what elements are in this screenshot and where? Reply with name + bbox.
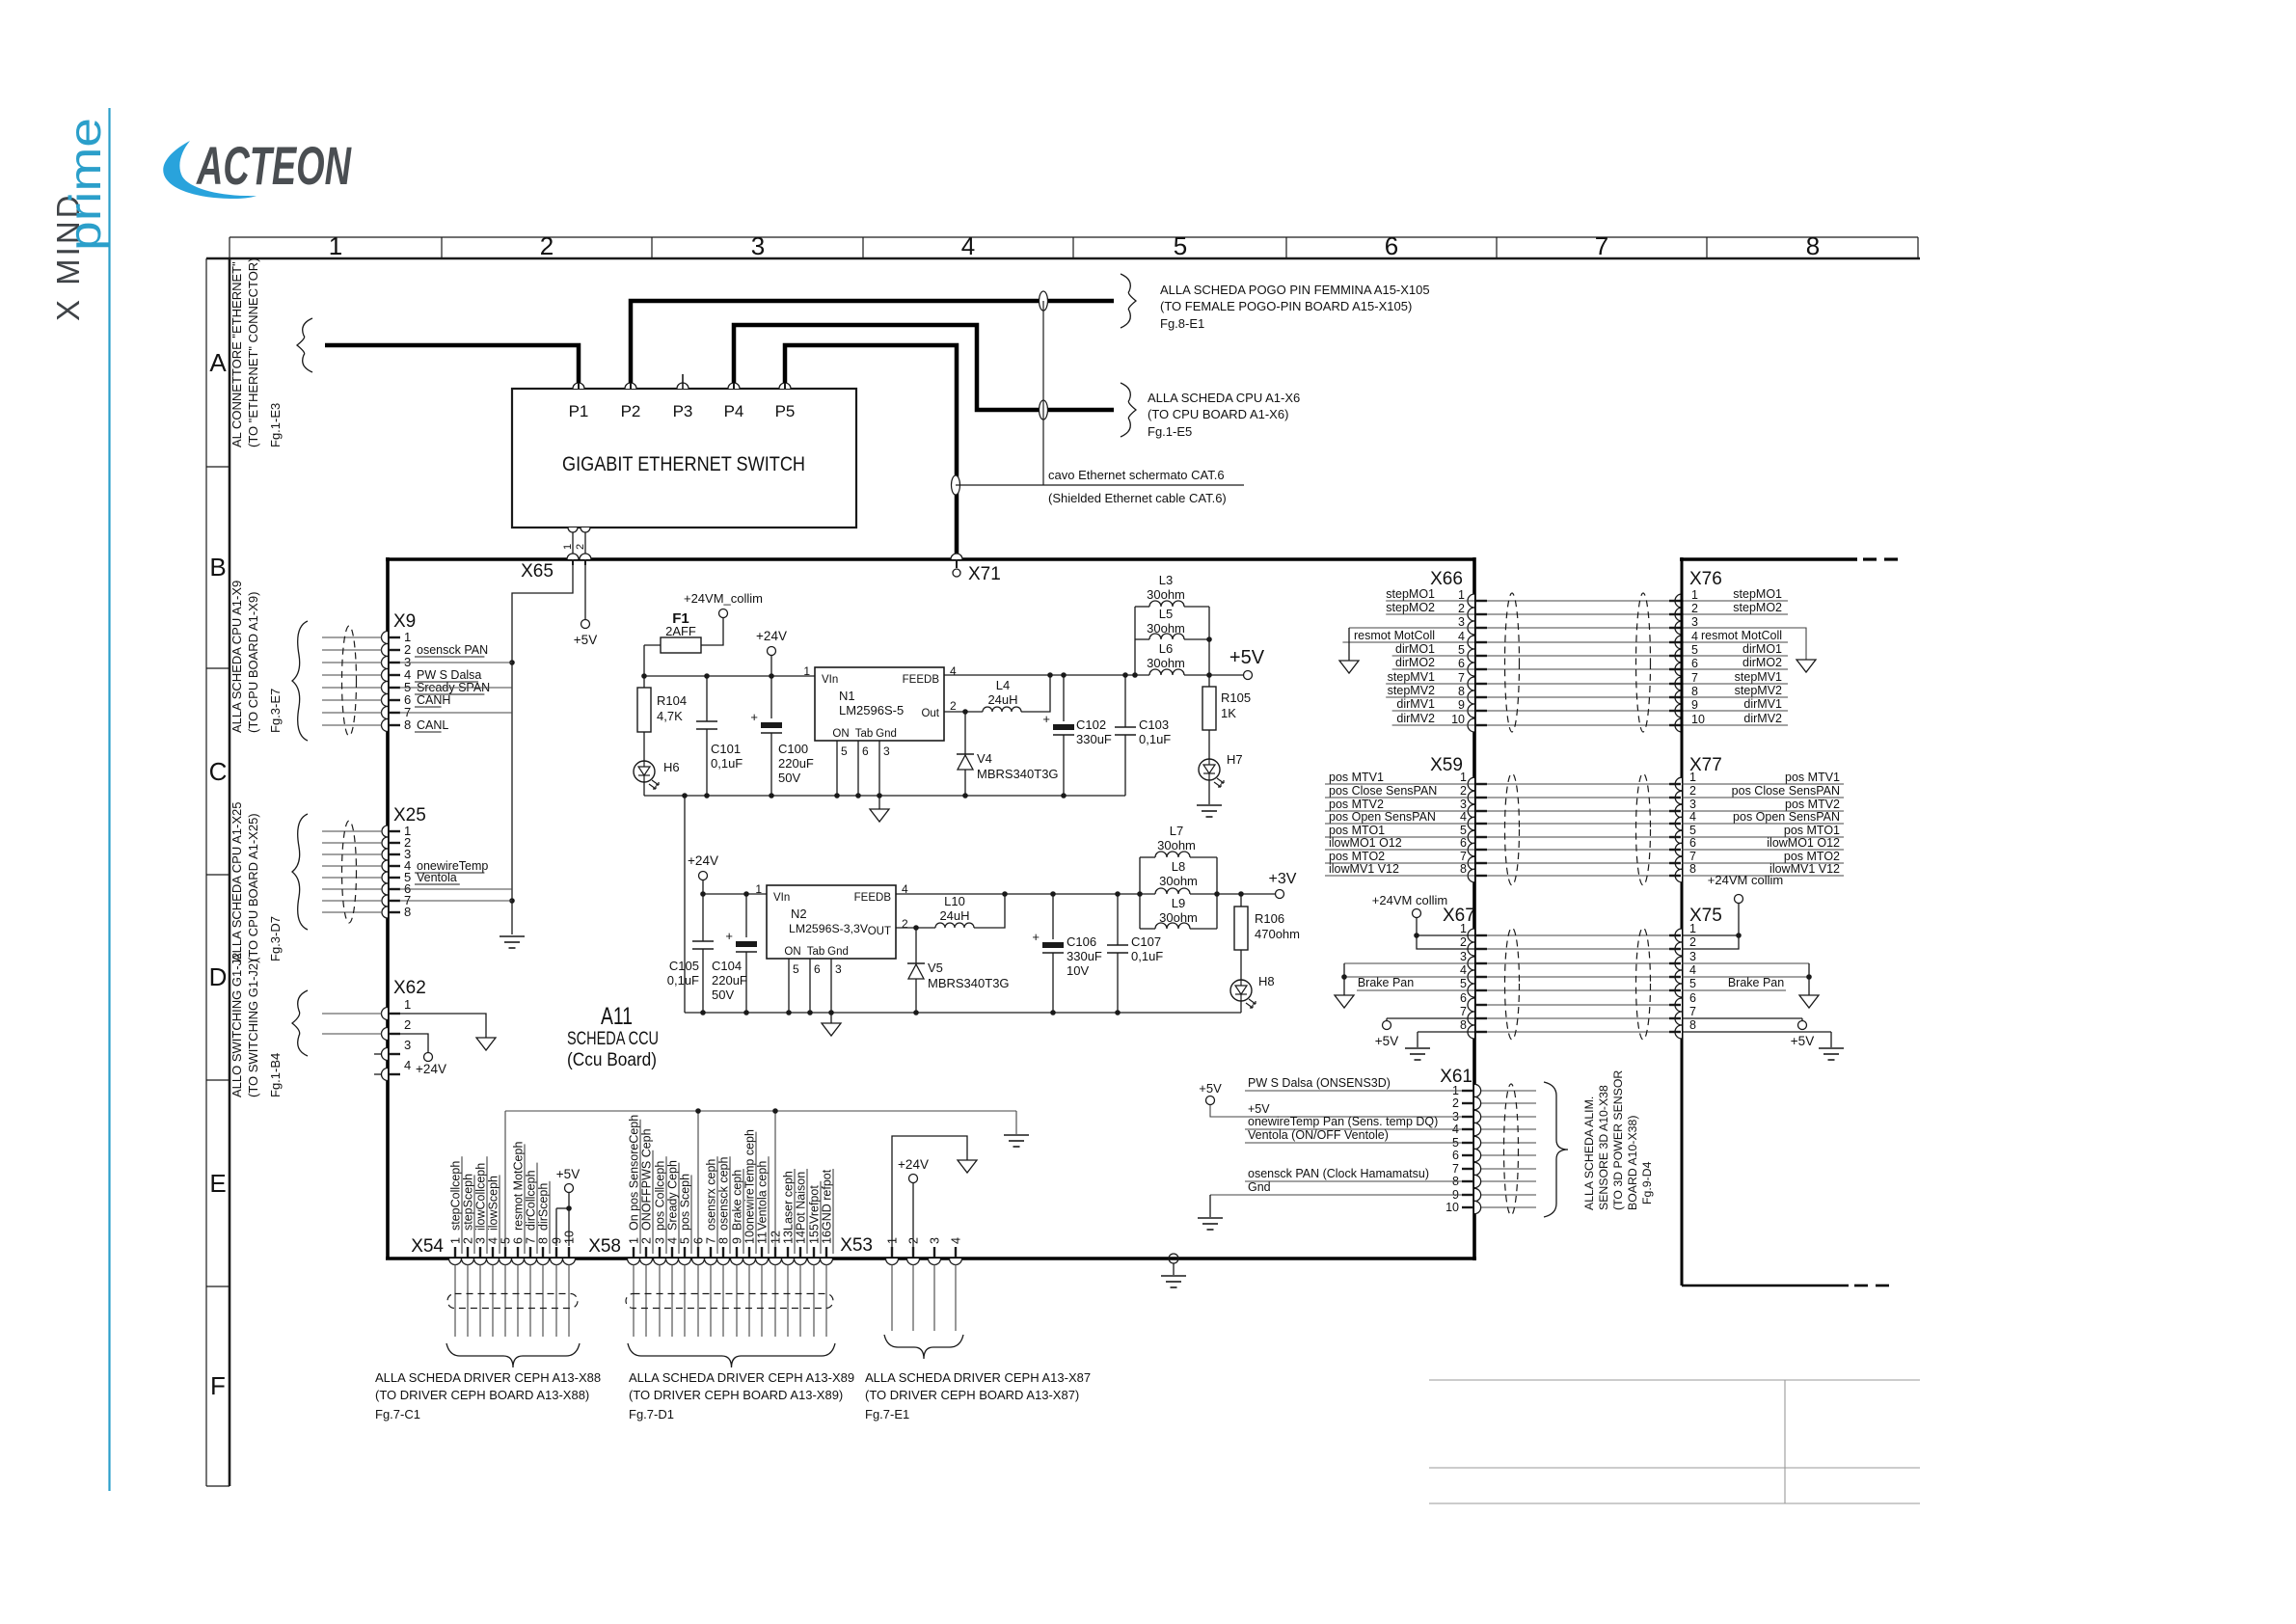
- svg-text:Fg.7-E1: Fg.7-E1: [865, 1407, 909, 1421]
- svg-text:Fg.7-C1: Fg.7-C1: [375, 1407, 420, 1421]
- svg-text:3: 3: [474, 1237, 488, 1244]
- svg-text:Out: Out: [921, 708, 939, 719]
- svg-text:Gnd: Gnd: [1248, 1180, 1271, 1194]
- svg-text:7: 7: [1452, 1162, 1459, 1176]
- svg-text:6: 6: [814, 962, 821, 976]
- X54 +5V terminal: [568, 1193, 570, 1246]
- net line to X54 X58 pins: [505, 1110, 1016, 1112]
- board shield connection: [1169, 1254, 1178, 1263]
- svg-text:pos Sceph: pos Sceph: [679, 1174, 692, 1231]
- svg-text:L7: L7: [1170, 824, 1183, 838]
- svg-text:3: 3: [1689, 798, 1696, 811]
- svg-text:stepCollceph: stepCollceph: [449, 1161, 463, 1231]
- frame header band: [230, 236, 1918, 238]
- X54 cable shield: [447, 1294, 578, 1309]
- svg-text:Fg.3-D7: Fg.3-D7: [268, 916, 283, 961]
- break symbol X25 cable: [292, 814, 308, 930]
- capacitor C100 220uF 50V: [770, 676, 772, 718]
- svg-text:3: 3: [883, 744, 890, 758]
- svg-text:3: 3: [1691, 615, 1698, 629]
- svg-text:Brake Pan: Brake Pan: [1358, 976, 1414, 989]
- svg-text:X76: X76: [1689, 569, 1722, 589]
- X76 cable shield: [1636, 593, 1651, 732]
- svg-text:4: 4: [666, 1237, 680, 1244]
- svg-text:L10: L10: [944, 894, 965, 908]
- X61 pin9 Gnd: [1210, 1194, 1462, 1196]
- svg-text:330uF: 330uF: [1076, 732, 1112, 746]
- svg-text:Fg.1-B4: Fg.1-B4: [268, 1053, 283, 1097]
- svg-text:ALLA SCHEDA DRIVER CEPH A13-X8: ALLA SCHEDA DRIVER CEPH A13-X88: [375, 1370, 601, 1385]
- svg-text:4: 4: [404, 1058, 411, 1072]
- svg-text:GIGABIT ETHERNET SWITCH: GIGABIT ETHERNET SWITCH: [562, 453, 805, 475]
- X25 internal wires: [399, 888, 512, 890]
- title block: [1429, 1379, 1920, 1381]
- X59 to X77 wires: [1487, 783, 1669, 785]
- svg-text:ilowMO1 O12: ilowMO1 O12: [1329, 836, 1402, 850]
- svg-text:1: 1: [1689, 771, 1696, 784]
- svg-text:dirMO2: dirMO2: [1395, 656, 1435, 669]
- connector X71: [951, 554, 962, 559]
- svg-text:C102: C102: [1076, 717, 1106, 732]
- svg-text:1: 1: [1460, 922, 1467, 935]
- X61 external wires: [1481, 1090, 1536, 1092]
- svg-text:8: 8: [1689, 1018, 1696, 1032]
- N2 out line: [896, 927, 916, 929]
- svg-text:On pos SensoreCeph: On pos SensoreCeph: [628, 1115, 641, 1231]
- svg-text:13: 13: [782, 1231, 796, 1244]
- svg-text:30ohm: 30ohm: [1147, 621, 1185, 636]
- svg-text:2AFF: 2AFF: [665, 624, 696, 638]
- svg-text:4: 4: [1691, 630, 1698, 643]
- svg-text:SENSORE 3D A10-X38: SENSORE 3D A10-X38: [1597, 1085, 1610, 1210]
- svg-text:8: 8: [404, 717, 411, 732]
- port P4: [728, 383, 740, 389]
- N1 feedback line +5V: [944, 674, 1149, 676]
- svg-text:2: 2: [575, 544, 586, 550]
- N2 pins 5 6 3: [788, 959, 790, 1013]
- svg-text:11: 11: [756, 1232, 770, 1244]
- svg-text:+24VM_collim: +24VM_collim: [684, 591, 763, 606]
- inductor L4 24uH: [965, 711, 983, 713]
- X75 cable shield: [1636, 928, 1651, 1040]
- svg-text:P5: P5: [775, 402, 796, 420]
- svg-text:2: 2: [1460, 935, 1467, 949]
- svg-text:Fg.8-E1: Fg.8-E1: [1160, 316, 1204, 331]
- wire X65 pin1 to gnd net: [512, 565, 573, 934]
- svg-text:+5V: +5V: [1791, 1034, 1814, 1048]
- ground X66 pin3: [1339, 661, 1359, 673]
- ground link N1 to N2 rail: [684, 796, 686, 1013]
- svg-text:4: 4: [950, 664, 957, 678]
- shield drain wire vertical: [1042, 301, 1044, 485]
- X54 external wires: [454, 1264, 456, 1337]
- connector X67: [1468, 929, 1474, 942]
- svg-text:CANH: CANH: [417, 693, 450, 707]
- inductor L10 24uH: [916, 927, 935, 929]
- X62 external wires: [322, 1013, 382, 1015]
- wire X62 pin1 to ground: [399, 1014, 486, 1038]
- connector X9: [382, 632, 388, 644]
- svg-text:ALLA SCHEDA POGO PIN FEMMINA A: ALLA SCHEDA POGO PIN FEMMINA A15-X105: [1160, 283, 1430, 297]
- break symbol X9 cable: [292, 621, 308, 741]
- svg-text:+: +: [725, 929, 733, 943]
- svg-text:stepMO2: stepMO2: [1386, 601, 1435, 614]
- svg-text:10: 10: [1451, 713, 1465, 726]
- svg-text:ilowMV1 V12: ilowMV1 V12: [1329, 862, 1399, 876]
- svg-text:H7: H7: [1227, 752, 1243, 767]
- regulator N1 LM2596S-5: [815, 667, 944, 741]
- svg-text:0,1uF: 0,1uF: [711, 756, 743, 771]
- svg-text:3: 3: [1460, 798, 1467, 811]
- svg-text:stepMO2: stepMO2: [1733, 601, 1782, 614]
- wire X76 pin3 to ground: [1682, 628, 1806, 660]
- svg-text:X62: X62: [393, 978, 426, 998]
- brace X58 cable: [628, 1343, 835, 1367]
- svg-text:220uF: 220uF: [712, 973, 747, 988]
- svg-text:2: 2: [462, 1237, 475, 1244]
- X9 internal wires to gnd net: [399, 662, 512, 663]
- connector X58: [628, 1259, 640, 1265]
- svg-text:X9: X9: [393, 611, 416, 632]
- svg-text:1: 1: [1689, 922, 1696, 935]
- svg-text:24uH: 24uH: [987, 692, 1017, 707]
- svg-text:(Ccu Board): (Ccu Board): [567, 1049, 657, 1070]
- wire X75 pin1: [1682, 934, 1739, 936]
- svg-text:50V: 50V: [712, 988, 734, 1002]
- connector X54: [449, 1259, 462, 1265]
- svg-text:resmot MotColl: resmot MotColl: [1701, 629, 1782, 642]
- svg-text:X59: X59: [1430, 755, 1463, 775]
- capacitor C107 0,1uF: [1117, 894, 1119, 945]
- ground X61 pin9: [1198, 1217, 1223, 1219]
- svg-text:8: 8: [1806, 231, 1820, 260]
- svg-text:VIn: VIn: [822, 674, 838, 686]
- svg-text:50V: 50V: [778, 771, 800, 785]
- svg-text:30ohm: 30ohm: [1159, 910, 1198, 925]
- connector X59: [1468, 777, 1474, 791]
- svg-text:+5V: +5V: [556, 1167, 580, 1181]
- svg-text:4: 4: [487, 1237, 500, 1244]
- svg-text:pos MTV2: pos MTV2: [1785, 798, 1840, 811]
- svg-text:330uF: 330uF: [1067, 949, 1102, 963]
- svg-text:3: 3: [654, 1237, 667, 1244]
- svg-text:ALLA SCHEDA CPU A1-X25: ALLA SCHEDA CPU A1-X25: [230, 802, 244, 961]
- svg-text:ALLA SCHEDA ALIM.: ALLA SCHEDA ALIM.: [1582, 1096, 1596, 1210]
- svg-text:6: 6: [512, 1237, 526, 1244]
- svg-text:C101: C101: [711, 742, 741, 756]
- N1 pins 5 6 3: [836, 741, 838, 796]
- wire +3V output: [1190, 893, 1275, 895]
- svg-text:MBRS340T3G: MBRS340T3G: [928, 976, 1010, 990]
- svg-text:8: 8: [537, 1237, 551, 1244]
- svg-text:Brake Pan: Brake Pan: [1728, 976, 1784, 989]
- svg-text:7: 7: [1458, 671, 1465, 685]
- svg-text:15: 15: [808, 1231, 822, 1244]
- X67 to X75 wires: [1487, 934, 1669, 936]
- diode V5 MBRS340T3G: [915, 928, 917, 963]
- svg-text:(TO DRIVER CEPH BOARD A13-X88): (TO DRIVER CEPH BOARD A13-X88): [375, 1388, 589, 1402]
- svg-text:6: 6: [1458, 657, 1465, 670]
- svg-text:A: A: [209, 348, 227, 377]
- svg-text:6: 6: [1689, 991, 1696, 1005]
- svg-text:X58: X58: [588, 1236, 621, 1257]
- svg-text:stepMV2: stepMV2: [1388, 684, 1435, 697]
- svg-text:ALLA SCHEDA DRIVER CEPH A13-X8: ALLA SCHEDA DRIVER CEPH A13-X87: [865, 1370, 1091, 1385]
- X67 pin8 ground: [1418, 1031, 1474, 1033]
- svg-text:+5V: +5V: [574, 633, 597, 647]
- break symbol CPU board: [1121, 383, 1136, 437]
- svg-text:1: 1: [628, 1237, 641, 1244]
- svg-text:1: 1: [755, 882, 762, 896]
- svg-text:Sready Ceph: Sready Ceph: [666, 1160, 680, 1231]
- svg-text:F: F: [210, 1371, 226, 1400]
- svg-text:X71: X71: [968, 564, 1001, 584]
- svg-text:resmot MotCeph: resmot MotCeph: [512, 1142, 526, 1231]
- svg-text:220uF: 220uF: [778, 756, 814, 771]
- svg-text:30ohm: 30ohm: [1147, 656, 1185, 670]
- svg-text:6: 6: [1689, 836, 1696, 850]
- svg-text:7: 7: [1689, 1005, 1696, 1018]
- svg-text:ACTEON: ACTEON: [196, 135, 352, 196]
- ground X75: [1799, 995, 1819, 1008]
- svg-text:10V: 10V: [1067, 963, 1089, 978]
- X67 cable shield: [1505, 928, 1520, 1040]
- wire fuse to vin bus: [643, 645, 645, 676]
- X75 pin7 +5V terminal: [1682, 1017, 1802, 1019]
- svg-text:3: 3: [1689, 950, 1696, 963]
- svg-text:ALLA SCHEDA CPU A1-X6: ALLA SCHEDA CPU A1-X6: [1148, 391, 1300, 405]
- svg-text:2: 2: [1689, 935, 1696, 949]
- inductor bank L7 L8 L9 30ohm: [1137, 891, 1143, 897]
- svg-text:(TO CPU BOARD A1-X6): (TO CPU BOARD A1-X6): [1148, 407, 1288, 421]
- svg-text:pos Close SensPAN: pos Close SensPAN: [1732, 784, 1840, 798]
- svg-text:N2: N2: [791, 907, 807, 921]
- wire X66 pin3 to ground: [1349, 627, 1474, 629]
- svg-text:8: 8: [1689, 862, 1696, 876]
- svg-text:(TO CPU BOARD A1-X9): (TO CPU BOARD A1-X9): [246, 592, 260, 733]
- terminal +24V N1: [768, 647, 776, 656]
- svg-text:+5V: +5V: [1248, 1102, 1270, 1116]
- svg-text:(TO DRIVER CEPH BOARD A13-X89): (TO DRIVER CEPH BOARD A13-X89): [629, 1388, 843, 1402]
- svg-text:+: +: [1042, 712, 1050, 726]
- svg-text:A11: A11: [601, 1003, 633, 1030]
- svg-text:(TO "ETHERNET" CONNECTOR): (TO "ETHERNET" CONNECTOR): [246, 257, 260, 447]
- wire P5 to X71: [785, 345, 957, 555]
- svg-text:3: 3: [835, 962, 842, 976]
- svg-text:X53: X53: [840, 1235, 873, 1256]
- svg-text:(TO SWITCHING G1-J2): (TO SWITCHING G1-J2): [246, 960, 260, 1097]
- X59 cable shield: [1505, 773, 1520, 885]
- svg-text:dirMO2: dirMO2: [1742, 656, 1782, 669]
- connector X62: [382, 1008, 388, 1020]
- svg-text:pos MTO1: pos MTO1: [1329, 824, 1385, 837]
- svg-text:P2: P2: [621, 402, 641, 420]
- wire P4 to CPU board: [734, 325, 1114, 410]
- terminal +24V X62: [424, 1053, 433, 1062]
- regulator N2 LM2596S-3,3V: [767, 885, 896, 959]
- wire X67 pin1: [1417, 934, 1474, 936]
- svg-text:5: 5: [1460, 824, 1467, 837]
- wire P2 to pogo pin board: [631, 301, 1114, 383]
- svg-text:2: 2: [404, 1017, 411, 1032]
- svg-text:C103: C103: [1139, 717, 1169, 732]
- svg-text:C100: C100: [778, 742, 808, 756]
- svg-text:4: 4: [950, 1237, 963, 1244]
- svg-text:dirMV2: dirMV2: [1396, 712, 1435, 725]
- svg-text:C: C: [209, 757, 228, 786]
- connector X53: [886, 1259, 899, 1265]
- svg-text:cavo Ethernet schermato CAT.6: cavo Ethernet schermato CAT.6: [1048, 468, 1225, 482]
- svg-text:10: 10: [1691, 713, 1705, 726]
- svg-text:1: 1: [803, 664, 810, 678]
- svg-text:6: 6: [1385, 231, 1398, 260]
- X58 external wires: [633, 1264, 635, 1337]
- svg-text:R106: R106: [1255, 911, 1284, 926]
- svg-text:LM2596S-3,3V: LM2596S-3,3V: [789, 922, 869, 935]
- capacitor C105 0,1uF: [702, 894, 704, 941]
- svg-text:2: 2: [1691, 602, 1698, 615]
- svg-text:+5V: +5V: [1375, 1034, 1398, 1048]
- gigabit ethernet switch box: [512, 389, 856, 528]
- svg-text:(TO CPU BOARD A1-X25): (TO CPU BOARD A1-X25): [246, 813, 260, 961]
- ground X76 pin3: [1796, 660, 1816, 672]
- svg-text:7: 7: [1595, 231, 1608, 260]
- svg-text:30ohm: 30ohm: [1159, 874, 1198, 888]
- svg-text:1: 1: [449, 1237, 463, 1244]
- svg-text:stepSceph: stepSceph: [462, 1174, 475, 1231]
- svg-text:H6: H6: [663, 760, 680, 774]
- svg-text:4,7K: 4,7K: [657, 709, 683, 723]
- svg-text:OUT: OUT: [868, 926, 891, 937]
- svg-text:9: 9: [731, 1237, 744, 1244]
- capacitor C101 0,1uF: [706, 676, 708, 721]
- svg-text:AL CONNETTORE "ETHERNET": AL CONNETTORE "ETHERNET": [230, 261, 244, 447]
- svg-text:2: 2: [540, 231, 554, 260]
- break symbol X62 cable: [292, 990, 308, 1056]
- svg-text:8: 8: [717, 1237, 731, 1244]
- svg-text:0,1uF: 0,1uF: [667, 973, 699, 988]
- wire +24VM_collim to fuse: [701, 618, 723, 645]
- svg-text:5: 5: [1460, 977, 1467, 990]
- capacitor C102 330uF: [1063, 675, 1065, 721]
- svg-text:4: 4: [961, 231, 975, 260]
- ground N2: [830, 1013, 832, 1023]
- svg-text:(TO 3D POWER SENSOR: (TO 3D POWER SENSOR: [1611, 1070, 1625, 1210]
- svg-text:16: 16: [821, 1231, 834, 1244]
- shield ellipse on P5 wire: [952, 475, 960, 495]
- N1 ground rail: [644, 795, 1125, 797]
- svg-text:L5: L5: [1159, 607, 1173, 621]
- svg-text:3: 3: [404, 1038, 411, 1052]
- logo vertical blue line: [108, 108, 110, 1491]
- vin bus N2: [703, 893, 767, 895]
- svg-text:ALLA SCHEDA DRIVER CEPH A13-X8: ALLA SCHEDA DRIVER CEPH A13-X89: [629, 1370, 854, 1385]
- svg-text:dirMV1: dirMV1: [1396, 697, 1435, 711]
- wire X65 pin2 to +5V: [584, 565, 586, 619]
- brace X61 cable: [1544, 1082, 1568, 1217]
- X25 external wires: [322, 830, 382, 832]
- svg-text:1K: 1K: [1221, 706, 1236, 720]
- wire L4 to +5V node: [1021, 675, 1050, 712]
- svg-text:Pot Naison: Pot Naison: [795, 1172, 808, 1231]
- svg-text:4: 4: [1458, 630, 1465, 643]
- X25 cable shield: [342, 821, 357, 923]
- svg-text:X54: X54: [411, 1236, 444, 1257]
- X58 cable shield: [626, 1294, 833, 1309]
- svg-text:L8: L8: [1172, 859, 1185, 874]
- terminal +3V output: [1276, 890, 1284, 899]
- svg-text:ilowMO1 O12: ilowMO1 O12: [1767, 836, 1840, 850]
- wire X53 pin1 to ground: [892, 1136, 967, 1247]
- svg-text:GND refpot: GND refpot: [821, 1169, 834, 1231]
- logo ACTEON swoosh: [163, 141, 257, 199]
- wire R104 to H6: [643, 732, 645, 761]
- svg-text:dirCollceph: dirCollceph: [525, 1170, 538, 1231]
- svg-text:5: 5: [1174, 231, 1187, 260]
- svg-text:onewireTemp ceph: onewireTemp ceph: [743, 1129, 757, 1231]
- svg-text:osensrx ceph: osensrx ceph: [705, 1159, 718, 1231]
- vin bus N1: [644, 675, 815, 677]
- svg-text:PW S Dalsa (ONSENS3D): PW S Dalsa (ONSENS3D): [1248, 1076, 1391, 1090]
- connector X25: [382, 826, 388, 837]
- svg-text:osensck PAN: osensck PAN: [417, 643, 488, 657]
- svg-text:C107: C107: [1131, 934, 1161, 949]
- svg-text:MBRS340T3G: MBRS340T3G: [977, 767, 1059, 781]
- svg-text:1: 1: [329, 231, 342, 260]
- svg-text:L9: L9: [1172, 896, 1185, 910]
- brace X53 cable: [884, 1335, 963, 1359]
- svg-text:5: 5: [1691, 643, 1698, 657]
- led H6: [634, 761, 655, 782]
- svg-text:5: 5: [1689, 977, 1696, 990]
- svg-text:2: 2: [1452, 1096, 1459, 1110]
- svg-text:+5V: +5V: [1199, 1081, 1222, 1096]
- capacitor C103 0,1uF: [1124, 675, 1126, 727]
- svg-text:7: 7: [1460, 1005, 1467, 1018]
- svg-text:7: 7: [1689, 850, 1696, 863]
- svg-text:1: 1: [1460, 771, 1467, 784]
- svg-text:3: 3: [1458, 615, 1465, 629]
- CCU board outline: [386, 557, 1474, 561]
- svg-text:3: 3: [929, 1237, 942, 1244]
- resistor R105 1K: [1208, 675, 1210, 687]
- svg-text:V5: V5: [928, 961, 943, 975]
- svg-text:5: 5: [841, 744, 848, 758]
- svg-text:5: 5: [1458, 643, 1465, 657]
- svg-text:30ohm: 30ohm: [1147, 587, 1185, 602]
- svg-text:FEEDB: FEEDB: [903, 674, 940, 686]
- svg-text:2: 2: [1460, 784, 1467, 798]
- svg-text:ilowCollceph: ilowCollceph: [474, 1163, 488, 1231]
- svg-text:L6: L6: [1159, 641, 1173, 656]
- svg-text:pos MTO1: pos MTO1: [1784, 824, 1840, 837]
- connector X77: [1675, 777, 1682, 791]
- ground H7: [1208, 780, 1210, 804]
- svg-text:+24V: +24V: [898, 1157, 929, 1172]
- svg-text:5Vrefpot: 5Vrefpot: [808, 1185, 822, 1231]
- svg-text:osensck PAN (Clock Hamamatsu): osensck PAN (Clock Hamamatsu): [1248, 1167, 1429, 1180]
- svg-text:stepMV1: stepMV1: [1735, 670, 1782, 684]
- X75 pin8 ground: [1682, 1031, 1831, 1033]
- capacitor C106 330uF 10V: [1052, 894, 1054, 939]
- svg-text:dirMV1: dirMV1: [1743, 697, 1782, 711]
- connector X75: [1675, 929, 1682, 942]
- svg-text:pos Close SensPAN: pos Close SensPAN: [1329, 784, 1437, 798]
- svg-text:Fg.3-E7: Fg.3-E7: [268, 689, 283, 733]
- svg-text:6: 6: [1460, 991, 1467, 1005]
- svg-text:ONOFFPWS Ceph: ONOFFPWS Ceph: [640, 1128, 654, 1231]
- svg-text:Ventola ceph: Ventola ceph: [756, 1161, 770, 1231]
